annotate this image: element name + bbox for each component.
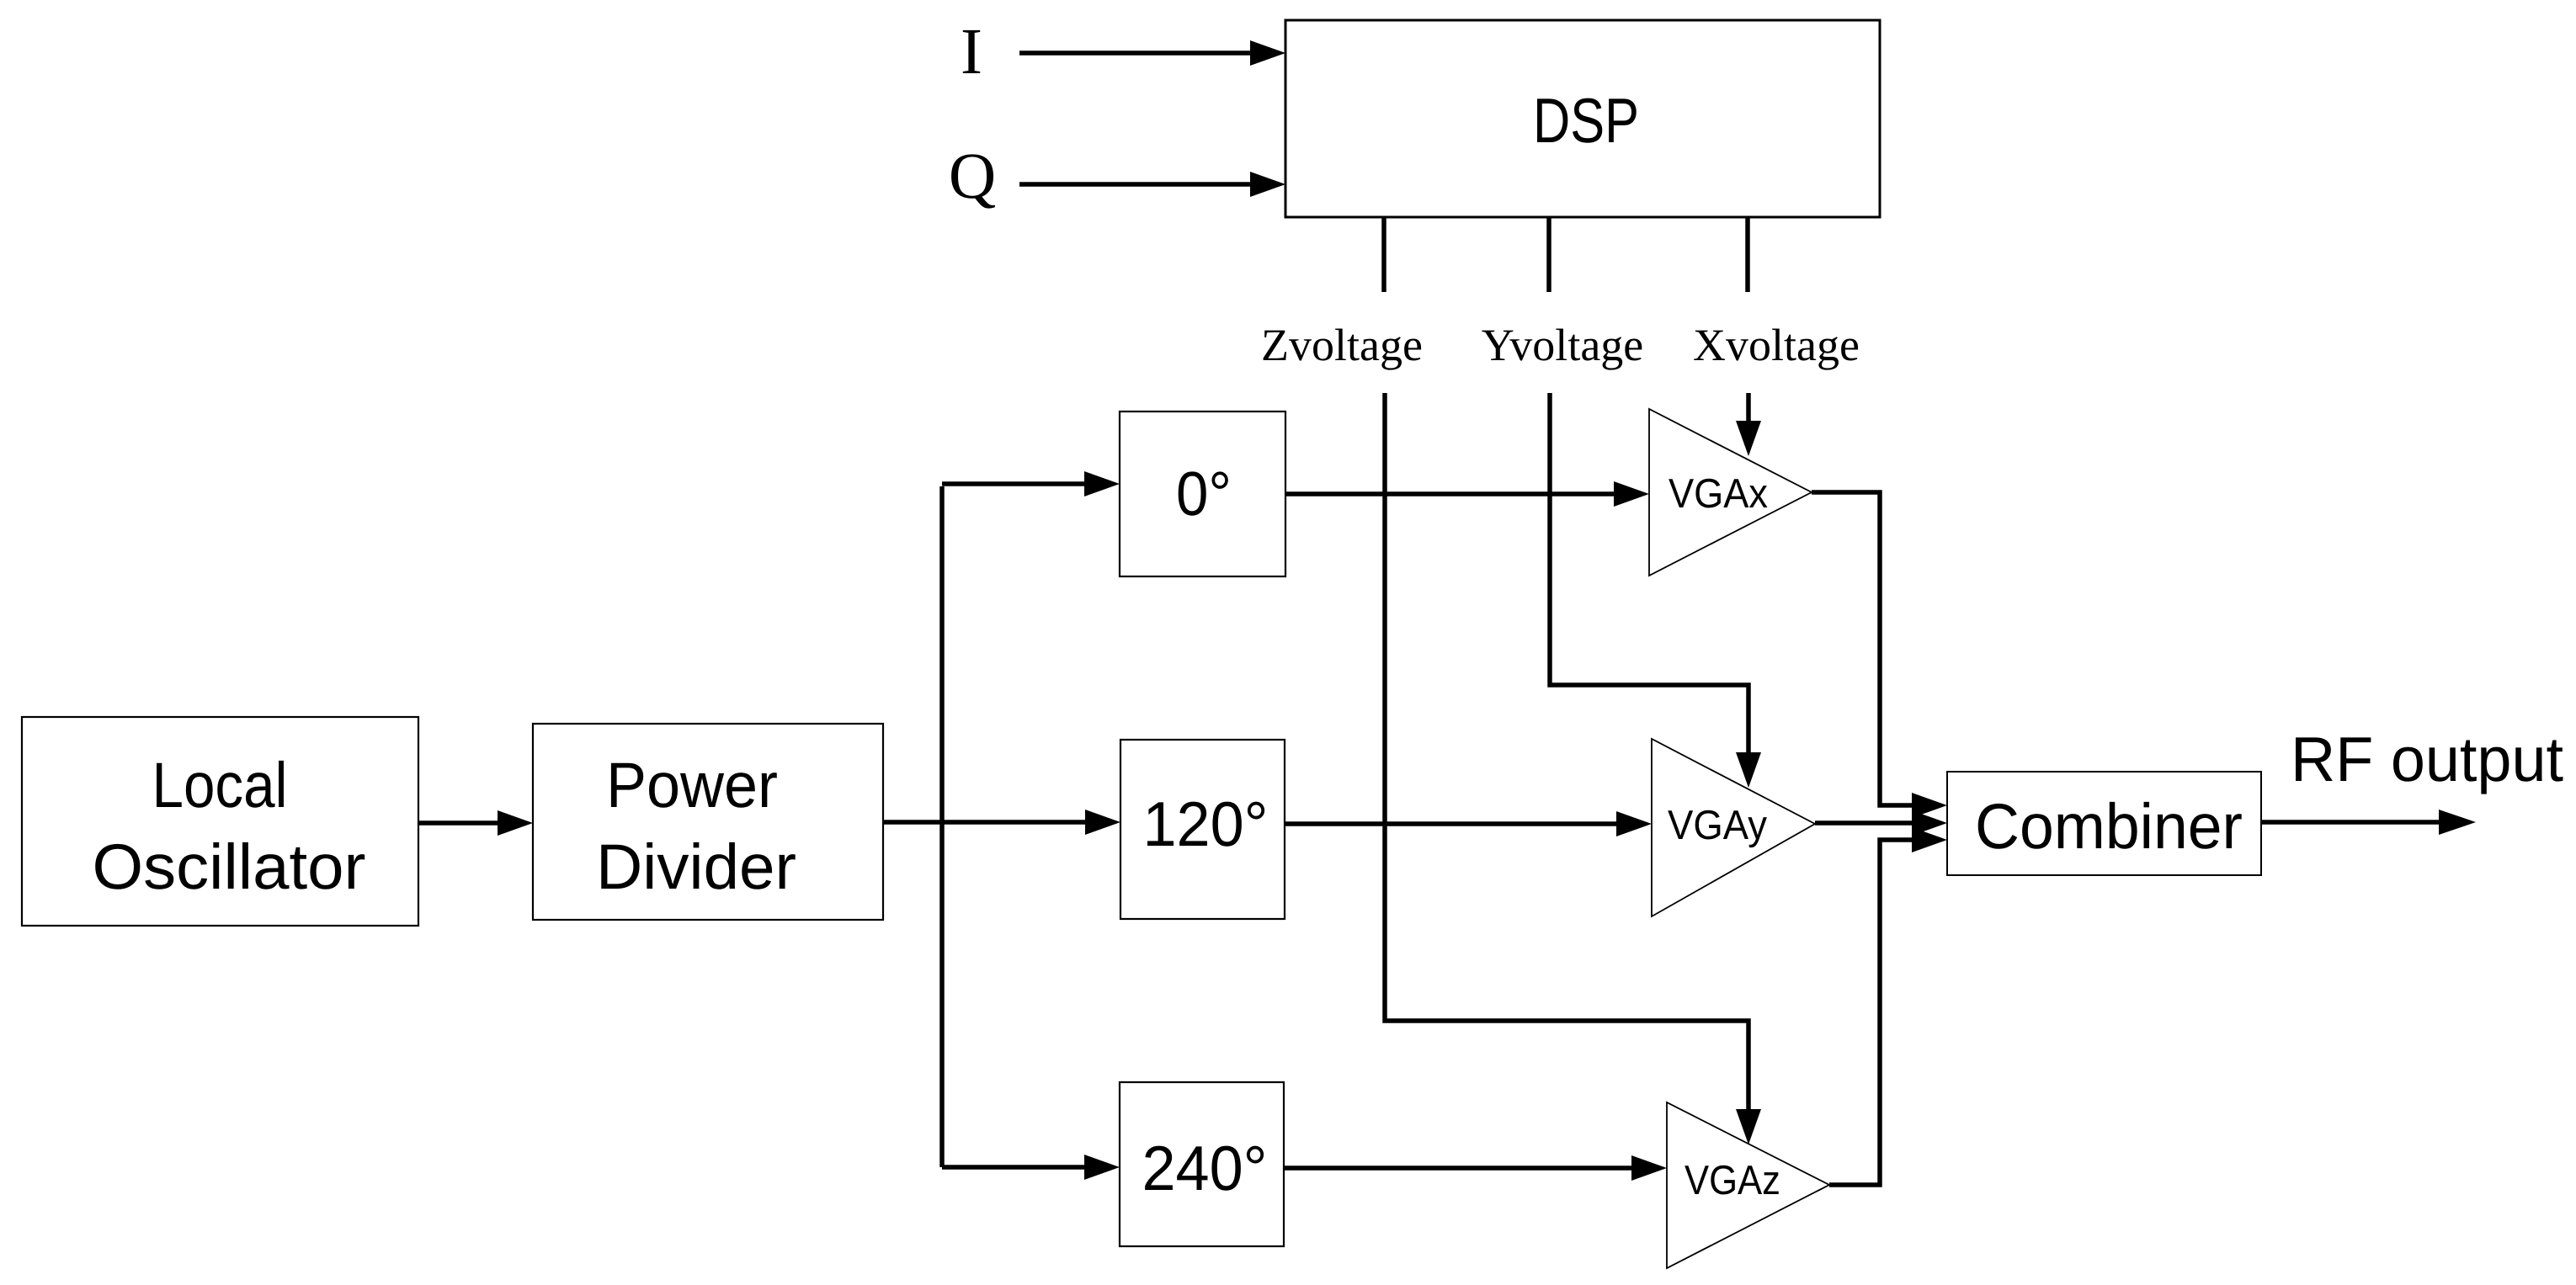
svg-text:Power: Power [606,750,778,821]
svg-text:VGAy: VGAy [1668,803,1767,848]
svg-text:RF output: RF output [2291,724,2563,794]
svg-text:Xvoltage: Xvoltage [1693,320,1860,370]
svg-text:Q: Q [949,139,996,212]
svg-text:Yvoltage: Yvoltage [1482,320,1644,370]
svg-text:Combiner: Combiner [1975,791,2243,863]
svg-text:VGAx: VGAx [1669,471,1768,517]
svg-text:Local: Local [152,750,288,821]
svg-text:120°: 120° [1143,789,1269,859]
svg-text:0°: 0° [1176,459,1232,528]
svg-text:Zvoltage: Zvoltage [1261,320,1423,370]
svg-text:I: I [961,14,982,88]
svg-text:Oscillator: Oscillator [93,831,366,903]
svg-text:240°: 240° [1142,1133,1268,1203]
svg-text:DSP: DSP [1533,85,1639,156]
svg-text:VGAz: VGAz [1685,1158,1780,1203]
svg-text:Divider: Divider [596,831,796,903]
